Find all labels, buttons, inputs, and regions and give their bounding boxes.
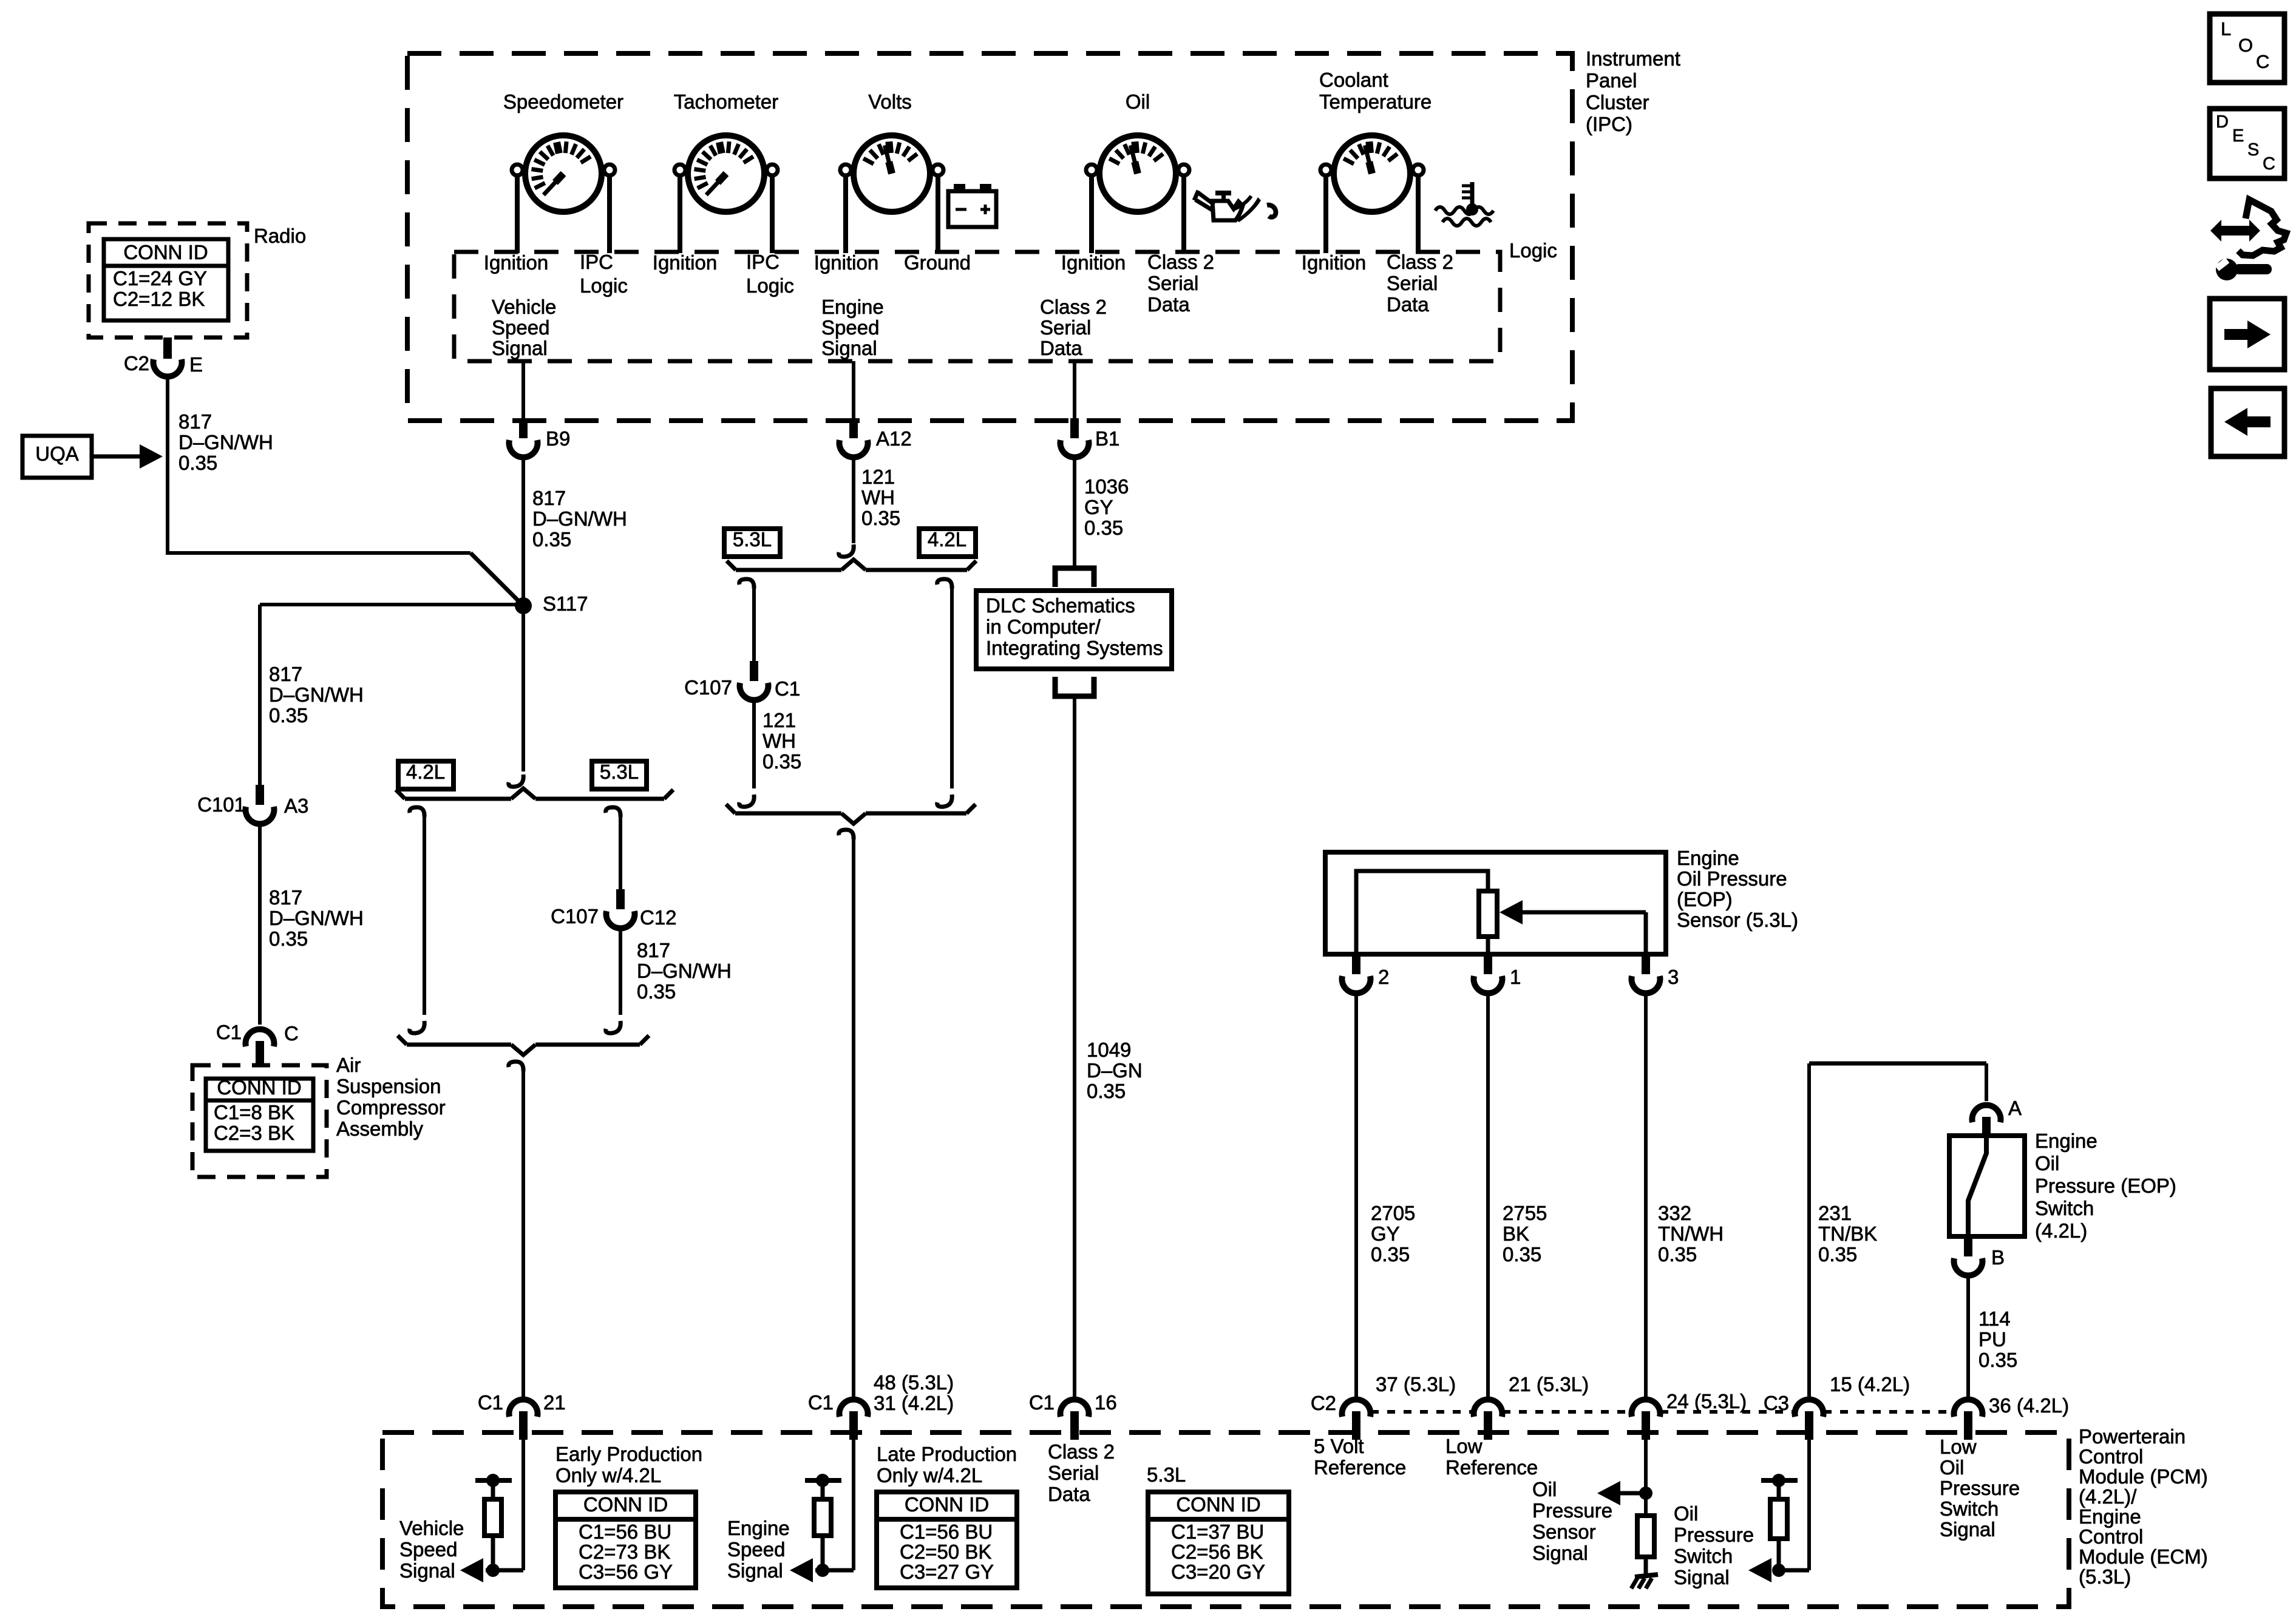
powertrain control module dashed box — [382, 1432, 2069, 1607]
svg-text:C1=56 BU: C1=56 BU — [900, 1520, 993, 1543]
svg-text:Class 2: Class 2 — [1147, 251, 1214, 273]
4.2L box (mid split) — [919, 529, 976, 557]
wire 817 (B9 to S117) — [521, 459, 525, 771]
svg-text:Vehicle: Vehicle — [492, 296, 556, 318]
back arrow icon box — [2211, 388, 2284, 456]
label 121 WH 0.35 (C107-C1) — [763, 709, 801, 773]
label Class 2 Serial Data (PCM) — [1048, 1440, 1115, 1505]
svg-text:Class 2: Class 2 — [1048, 1440, 1115, 1463]
svg-text:GY: GY — [1371, 1222, 1400, 1245]
merge brace (121) — [735, 812, 841, 816]
svg-text:Sensor: Sensor — [1532, 1520, 1596, 1543]
EOP switch lever — [1968, 1136, 1986, 1236]
svg-text:UQA: UQA — [35, 442, 79, 465]
svg-text:CONN ID: CONN ID — [1176, 1493, 1260, 1516]
svg-text:Ignition: Ignition — [814, 251, 878, 274]
svg-text:in Computer/: in Computer/ — [986, 615, 1101, 638]
gauge tachometer — [674, 135, 778, 253]
svg-text:817: 817 — [637, 939, 670, 961]
gauge speedometer — [512, 135, 615, 253]
svg-text:Air: Air — [336, 1054, 361, 1076]
label Coolant Temperature — [1319, 69, 1432, 113]
svg-text:Suspension: Suspension — [336, 1075, 441, 1097]
svg-text:Reference: Reference — [1314, 1456, 1406, 1479]
OPWS resistor lead low — [1777, 1539, 1781, 1570]
svg-text:Serial: Serial — [1147, 272, 1198, 294]
gauge oil — [1086, 135, 1189, 253]
label 2755 BK 0.35 — [1503, 1202, 1547, 1266]
svg-text:C3=56 GY: C3=56 GY — [579, 1561, 673, 1583]
wire 817 (merge to PCM C1-21) — [521, 1071, 525, 1397]
svg-text:C: C — [2256, 51, 2269, 72]
terminal B1 — [1070, 418, 1079, 438]
PCM terminal C2-37 — [1342, 1400, 1371, 1417]
wire 121 5.3L branch lower — [752, 702, 756, 788]
IPC inner logic dashed box — [454, 252, 1500, 361]
CONN ID table (5.3L) — [1148, 1492, 1289, 1594]
label Engine Oil Pressure (EOP) Switch (4.2L) — [2035, 1130, 2176, 1242]
wire 817 4.2L branch — [423, 817, 426, 1015]
EOP sensor potentiometer — [1479, 891, 1497, 937]
PCM terminal C1-21 — [509, 1400, 537, 1417]
svg-text:Speedometer: Speedometer — [503, 90, 623, 113]
air suspension CONN ID table — [206, 1079, 313, 1151]
label Class 2 Serial Data (oil right) — [1147, 251, 1214, 316]
svg-text:Ignition: Ignition — [484, 251, 548, 274]
svg-text:21 (5.3L): 21 (5.3L) — [1509, 1373, 1589, 1395]
svg-text:IPC: IPC — [580, 251, 613, 273]
svg-text:Logic: Logic — [1509, 239, 1557, 262]
svg-text:Tachometer: Tachometer — [674, 90, 778, 113]
svg-text:0.35: 0.35 — [763, 750, 801, 773]
svg-text:Serial: Serial — [1048, 1462, 1099, 1484]
label Late Production Only w/4.2L — [877, 1443, 1017, 1486]
svg-text:4.2L: 4.2L — [406, 761, 445, 783]
svg-text:IPC: IPC — [746, 251, 779, 273]
svg-text:C: C — [2263, 154, 2275, 174]
merge outlet hook (121) — [839, 830, 854, 839]
svg-text:Low: Low — [1940, 1436, 1977, 1458]
svg-text:5.3L: 5.3L — [733, 528, 772, 551]
svg-text:C2=73 BK: C2=73 BK — [579, 1541, 670, 1563]
resistor (oil pressure switch) — [1770, 1499, 1787, 1539]
svg-text:1049: 1049 — [1087, 1039, 1131, 1061]
svg-text:817: 817 — [178, 410, 212, 433]
label 817 D-GN/WH 0.35 (radio) — [178, 410, 273, 474]
coolant temperature icon — [1435, 182, 1493, 226]
svg-text:2755: 2755 — [1503, 1202, 1547, 1224]
VSS horizontal — [486, 1568, 523, 1573]
svg-text:Class 2: Class 2 — [1040, 296, 1107, 318]
svg-text:5.3L: 5.3L — [1147, 1463, 1186, 1486]
5.3L box (mid split) — [724, 529, 780, 557]
OPSS junction dot — [1639, 1486, 1652, 1500]
OPWS T-bar — [1761, 1478, 1798, 1483]
terminal B9 — [519, 418, 528, 438]
svg-text:0.35: 0.35 — [1658, 1243, 1697, 1266]
svg-text:Data: Data — [1048, 1483, 1090, 1505]
PCM terminal 36 — [1954, 1400, 1983, 1417]
svg-text:(EOP): (EOP) — [1677, 888, 1733, 910]
wire 817 diagonal to S117 — [470, 553, 523, 606]
splice S117 — [515, 597, 532, 614]
label 332 TN/WH 0.35 — [1658, 1202, 1724, 1266]
resistor (ESS) — [814, 1499, 831, 1536]
split brace (817) — [405, 797, 511, 801]
wire 2755 (pin1 to PCM 21) — [1486, 995, 1490, 1397]
label 121 WH 0.35 (A12) — [861, 466, 900, 529]
svg-text:CONN ID: CONN ID — [583, 1493, 668, 1516]
connector C107-C12 — [616, 889, 625, 909]
svg-text:A: A — [2008, 1097, 2022, 1119]
PCM terminal C1-48/31 — [840, 1400, 868, 1417]
PCM terminal C3-15 — [1795, 1400, 1824, 1417]
svg-text:Module (ECM): Module (ECM) — [2079, 1545, 2208, 1568]
OPWS junction dot — [1772, 1564, 1785, 1577]
ground (PCM) — [1635, 1575, 1658, 1577]
terminal B (EOP switch) — [1964, 1236, 1972, 1256]
svg-text:121: 121 — [763, 709, 796, 731]
svg-text:0.35: 0.35 — [1084, 517, 1123, 539]
label Instrument Panel Cluster (IPC) — [1586, 47, 1680, 135]
svg-text:0.35: 0.35 — [1978, 1349, 2017, 1371]
engine oil pressure sensor box — [1325, 852, 1666, 954]
wire 2705 (pin2 to PCM C2-37) — [1354, 995, 1358, 1397]
svg-text:Compressor: Compressor — [336, 1096, 446, 1119]
svg-text:S: S — [2247, 140, 2259, 160]
radio dashed box — [89, 223, 247, 337]
svg-text:C1: C1 — [808, 1391, 834, 1414]
PCM terminal 21 — [1474, 1400, 1503, 1417]
svg-text:C107: C107 — [684, 676, 732, 699]
svg-text:L: L — [2221, 18, 2231, 39]
wire 231 (down to PCM C3-15) — [1807, 1063, 1811, 1397]
label 817 D-GN/WH 0.35 (C101 below) — [269, 886, 364, 950]
wire 121 (A12 to split) — [852, 459, 855, 543]
VSS junction dot — [486, 1564, 500, 1577]
5.3L box (left split) — [592, 761, 647, 789]
svg-text:Oil Pressure: Oil Pressure — [1677, 867, 1787, 890]
svg-text:Assembly: Assembly — [336, 1117, 424, 1140]
label Early Production Only w/4.2L — [555, 1443, 702, 1486]
label 1049 D-GN 0.35 — [1087, 1039, 1143, 1102]
connector C2 (radio) — [163, 337, 172, 359]
4.2L box (left split) — [398, 761, 453, 789]
wire 817 5.3L branch lower — [619, 931, 622, 1015]
EOP sensor pin 2 — [1352, 954, 1360, 974]
svg-text:Pressure: Pressure — [1674, 1524, 1754, 1546]
label IPC Logic (speedometer) — [580, 251, 628, 297]
svg-text:Switch: Switch — [1674, 1545, 1733, 1567]
VSS T-bar dot — [486, 1474, 500, 1487]
svg-text:C1=37 BU: C1=37 BU — [1171, 1520, 1264, 1543]
EOP sensor pin 3 — [1642, 954, 1650, 974]
svg-text:O: O — [2238, 35, 2253, 56]
merge hook 4.2L end (817) — [410, 1021, 425, 1033]
svg-text:Engine: Engine — [2079, 1505, 2141, 1528]
svg-text:Pressure: Pressure — [1940, 1477, 2020, 1499]
svg-text:Late Production: Late Production — [877, 1443, 1017, 1465]
svg-text:C12: C12 — [640, 906, 677, 929]
UQA box — [22, 436, 92, 478]
svg-text:Only w/4.2L: Only w/4.2L — [877, 1464, 982, 1486]
svg-text:Serial: Serial — [1387, 272, 1438, 294]
svg-text:Control: Control — [2079, 1445, 2143, 1468]
svg-text:C: C — [284, 1022, 299, 1045]
svg-text:Low: Low — [1445, 1435, 1483, 1457]
svg-text:WH: WH — [763, 730, 796, 752]
svg-text:332: 332 — [1658, 1202, 1691, 1224]
label Powerterain Control Module (PCM)(4.2L)/Engine Control Module (ECM)(5.3L) — [2079, 1425, 2208, 1588]
resistor (VSS) — [484, 1499, 501, 1536]
VSS arrow — [460, 1558, 483, 1582]
branch hook 4.2L (121) — [937, 579, 952, 589]
svg-text:(IPC): (IPC) — [1586, 113, 1632, 135]
svg-text:TN/WH: TN/WH — [1658, 1222, 1724, 1245]
wire 121 (merge to PCM C1-48/31) — [852, 839, 855, 1397]
off-page bracket lower (DLC) — [1055, 677, 1094, 696]
svg-text:DLC Schematics: DLC Schematics — [986, 594, 1135, 617]
EOP switch box — [1949, 1136, 2025, 1236]
svg-text:C2: C2 — [1311, 1392, 1336, 1414]
svg-text:D–GN/WH: D–GN/WH — [269, 683, 364, 706]
ESS junction dot — [816, 1564, 829, 1577]
svg-text:Radio: Radio — [254, 225, 306, 247]
label 817 D-GN/WH 0.35 (C12) — [637, 939, 732, 1003]
svg-text:(4.2L): (4.2L) — [2035, 1219, 2087, 1242]
merge hook 5.3L end (817) — [606, 1021, 621, 1033]
OPWS resistor lead high — [1777, 1482, 1781, 1499]
wire class 2 serial data (IPC to B1) — [1073, 361, 1076, 418]
svg-text:Vehicle: Vehicle — [399, 1517, 464, 1539]
label Low Reference — [1445, 1435, 1538, 1479]
PCM terminal 24 — [1632, 1400, 1660, 1417]
oil can icon — [1194, 191, 1275, 222]
svg-text:Engine: Engine — [2035, 1130, 2097, 1152]
battery icon — [948, 184, 996, 227]
wire 817 horizontal run — [166, 551, 470, 555]
wire 231 top run — [1809, 1062, 1986, 1066]
svg-text:C107: C107 — [551, 905, 599, 927]
OPSS resistor lead low — [1644, 1557, 1648, 1578]
branch hook 5.3L (121) — [739, 579, 754, 589]
svg-text:0.35: 0.35 — [269, 704, 308, 727]
ESS arrow — [790, 1558, 813, 1582]
svg-text:Signal: Signal — [399, 1559, 455, 1582]
svg-text:231: 231 — [1818, 1202, 1852, 1224]
air suspension compressor dashed box — [192, 1065, 327, 1177]
svg-text:Logic: Logic — [746, 274, 794, 297]
svg-text:C101: C101 — [197, 793, 245, 816]
svg-text:Data: Data — [1040, 337, 1082, 359]
svg-text:Coolant: Coolant — [1319, 69, 1388, 91]
wire 121 4.2L branch — [950, 589, 954, 788]
svg-text:0.35: 0.35 — [1087, 1080, 1126, 1102]
svg-text:D: D — [2216, 112, 2229, 132]
connector C1 (air suspension) — [246, 1029, 274, 1046]
merge brace (817) — [407, 1043, 511, 1047]
svg-text:Ignition: Ignition — [1302, 251, 1366, 274]
wire 24 inside PCM — [1644, 1440, 1648, 1516]
wire 332 (pin3 to PCM 24) — [1644, 995, 1648, 1397]
svg-text:D–GN: D–GN — [1087, 1059, 1143, 1082]
forward arrow icon box — [2210, 299, 2284, 370]
svg-text:(4.2L)/: (4.2L)/ — [2079, 1485, 2137, 1508]
svg-text:31 (4.2L): 31 (4.2L) — [874, 1392, 954, 1414]
svg-text:Speed: Speed — [821, 316, 879, 339]
UQA arrow — [92, 455, 140, 459]
svg-text:D–GN/WH: D–GN/WH — [637, 960, 732, 982]
svg-text:Signal: Signal — [727, 1559, 783, 1582]
svg-text:CONN ID: CONN ID — [905, 1493, 989, 1516]
label Class 2 Serial Data (IPC B1) — [1040, 296, 1107, 359]
OPWS T-bar dot — [1772, 1474, 1785, 1487]
svg-text:D–GN/WH: D–GN/WH — [178, 431, 273, 453]
svg-text:C2: C2 — [124, 352, 149, 375]
svg-text:C3=20 GY: C3=20 GY — [1171, 1561, 1265, 1583]
svg-text:Speed: Speed — [727, 1538, 785, 1561]
label DLC Schematics in Computer/Integrating Systems — [986, 594, 1163, 659]
label 817 D-GN/WH 0.35 (B9) — [532, 487, 627, 551]
svg-text:Engine: Engine — [821, 296, 884, 318]
terminal A12 — [849, 418, 858, 438]
svg-text:Serial: Serial — [1040, 316, 1091, 339]
svg-text:C2=56 BK: C2=56 BK — [1171, 1541, 1263, 1563]
CONN ID table (early production) — [555, 1492, 696, 1588]
svg-text:5 Volt: 5 Volt — [1314, 1435, 1364, 1457]
label Air Suspension Compressor Assembly — [336, 1054, 446, 1140]
svg-text:Ground: Ground — [904, 251, 971, 274]
hand and wrench icon — [2210, 200, 2286, 280]
svg-text:CONN ID: CONN ID — [123, 241, 208, 263]
svg-text:21: 21 — [543, 1391, 566, 1414]
wire 817 branch horizontal (to C101) — [260, 603, 521, 606]
connector C101 — [256, 785, 264, 805]
VSS resistor lead high — [491, 1482, 495, 1499]
OPSS arrow — [1618, 1491, 1646, 1496]
label 817 D-GN/WH 0.35 (C101 above) — [269, 663, 364, 727]
svg-text:0.35: 0.35 — [861, 507, 900, 529]
label Class 2 Serial Data (coolant right) — [1387, 251, 1453, 316]
merge hook 5.3L end (121) — [739, 795, 755, 807]
svg-text:Ignition: Ignition — [653, 251, 717, 274]
instrument panel cluster (IPC) dashed box — [407, 53, 1572, 421]
svg-text:Integrating Systems: Integrating Systems — [986, 637, 1163, 659]
wire 114 (B to PCM 36) — [1966, 1278, 1970, 1397]
wire 1036 (B1 down) — [1073, 459, 1076, 568]
svg-text:0.35: 0.35 — [1371, 1243, 1410, 1266]
svg-text:3: 3 — [1668, 966, 1679, 988]
wire engine speed signal (IPC to A12) — [852, 361, 855, 418]
svg-text:Pressure: Pressure — [1532, 1499, 1612, 1522]
label Engine Oil Pressure (EOP) Sensor (5.3L) — [1677, 847, 1798, 931]
svg-text:Temperature: Temperature — [1319, 90, 1432, 113]
svg-text:Oil: Oil — [1126, 90, 1150, 113]
svg-text:37 (5.3L): 37 (5.3L) — [1376, 1373, 1456, 1395]
svg-text:C1: C1 — [478, 1391, 503, 1414]
label IPC Logic (tachometer) — [746, 251, 794, 297]
ESS T-bar — [805, 1478, 841, 1483]
svg-text:Instrument: Instrument — [1586, 47, 1680, 70]
merge outlet hook (817) — [509, 1062, 523, 1071]
svg-text:0.35: 0.35 — [1818, 1243, 1857, 1266]
svg-text:Data: Data — [1387, 293, 1429, 316]
resistor (oil pressure sensor) — [1637, 1516, 1654, 1557]
svg-text:Signal: Signal — [1940, 1518, 1995, 1541]
svg-text:B1: B1 — [1095, 427, 1119, 450]
wire C3-15 inside PCM — [1807, 1440, 1811, 1570]
label Vehicle Speed Signal (IPC) — [492, 296, 556, 359]
svg-text:Engine: Engine — [727, 1517, 790, 1539]
svg-text:Signal: Signal — [1674, 1566, 1730, 1588]
svg-text:0.35: 0.35 — [532, 528, 571, 551]
gauge volts — [840, 135, 943, 253]
svg-text:817: 817 — [269, 663, 302, 685]
svg-text:GY: GY — [1084, 496, 1113, 518]
svg-text:Signal: Signal — [821, 337, 877, 359]
svg-text:A12: A12 — [876, 427, 912, 450]
svg-text:Oil: Oil — [1674, 1502, 1698, 1525]
svg-text:C2=3 BK: C2=3 BK — [214, 1122, 294, 1144]
EOP sensor pin 1 — [1484, 954, 1492, 974]
svg-text:0.35: 0.35 — [1503, 1243, 1541, 1266]
wire 817 branch vertical (to C101) — [258, 605, 262, 785]
svg-text:0.35: 0.35 — [178, 452, 217, 474]
radio CONN ID table — [104, 239, 228, 320]
svg-text:(5.3L): (5.3L) — [2079, 1565, 2131, 1588]
svg-text:Pressure (EOP): Pressure (EOP) — [2035, 1175, 2176, 1197]
svg-text:BK: BK — [1503, 1222, 1529, 1245]
OPWS horizontal — [1774, 1568, 1809, 1573]
EOP sensor internal wiring — [1356, 871, 1488, 954]
svg-text:Logic: Logic — [580, 274, 628, 297]
svg-text:E: E — [189, 353, 203, 376]
split hook (121 main end) — [839, 544, 854, 557]
DLC schematics box — [976, 591, 1172, 669]
svg-text:1036: 1036 — [1084, 475, 1129, 498]
svg-text:WH: WH — [861, 486, 895, 509]
svg-text:Speed: Speed — [399, 1538, 457, 1561]
label Vehicle Speed Signal (PCM) — [399, 1517, 464, 1582]
svg-text:16: 16 — [1095, 1391, 1117, 1414]
svg-text:TN/BK: TN/BK — [1818, 1222, 1877, 1245]
svg-text:48 (5.3L): 48 (5.3L) — [874, 1371, 954, 1394]
svg-text:B: B — [1991, 1246, 2005, 1269]
svg-text:D–GN/WH: D–GN/WH — [532, 507, 627, 530]
label 2705 GY 0.35 — [1371, 1202, 1415, 1266]
svg-text:A3: A3 — [284, 795, 308, 817]
svg-text:24 (5.3L): 24 (5.3L) — [1666, 1390, 1747, 1412]
svg-text:817: 817 — [532, 487, 566, 509]
svg-text:817: 817 — [269, 886, 302, 909]
svg-text:5.3L: 5.3L — [600, 761, 639, 783]
svg-text:Signal: Signal — [492, 337, 548, 359]
svg-text:S117: S117 — [543, 592, 588, 615]
split brace (121) — [736, 568, 841, 572]
svg-text:PU: PU — [1978, 1328, 2006, 1351]
svg-text:C1: C1 — [216, 1021, 242, 1043]
svg-text:Early Production: Early Production — [555, 1443, 702, 1465]
svg-text:C1=24 GY: C1=24 GY — [113, 267, 207, 290]
VSS T-bar — [475, 1478, 512, 1483]
DESC icon box — [2210, 109, 2284, 178]
wire 817 (C101 to C1) — [258, 826, 262, 1025]
wire 1049 (DLC to PCM C1-16) — [1073, 696, 1076, 1397]
label 114 PU 0.35 — [1978, 1307, 2017, 1371]
svg-text:15 (4.2L): 15 (4.2L) — [1830, 1373, 1910, 1395]
svg-text:Engine: Engine — [1677, 847, 1739, 869]
svg-text:C1: C1 — [775, 677, 800, 700]
